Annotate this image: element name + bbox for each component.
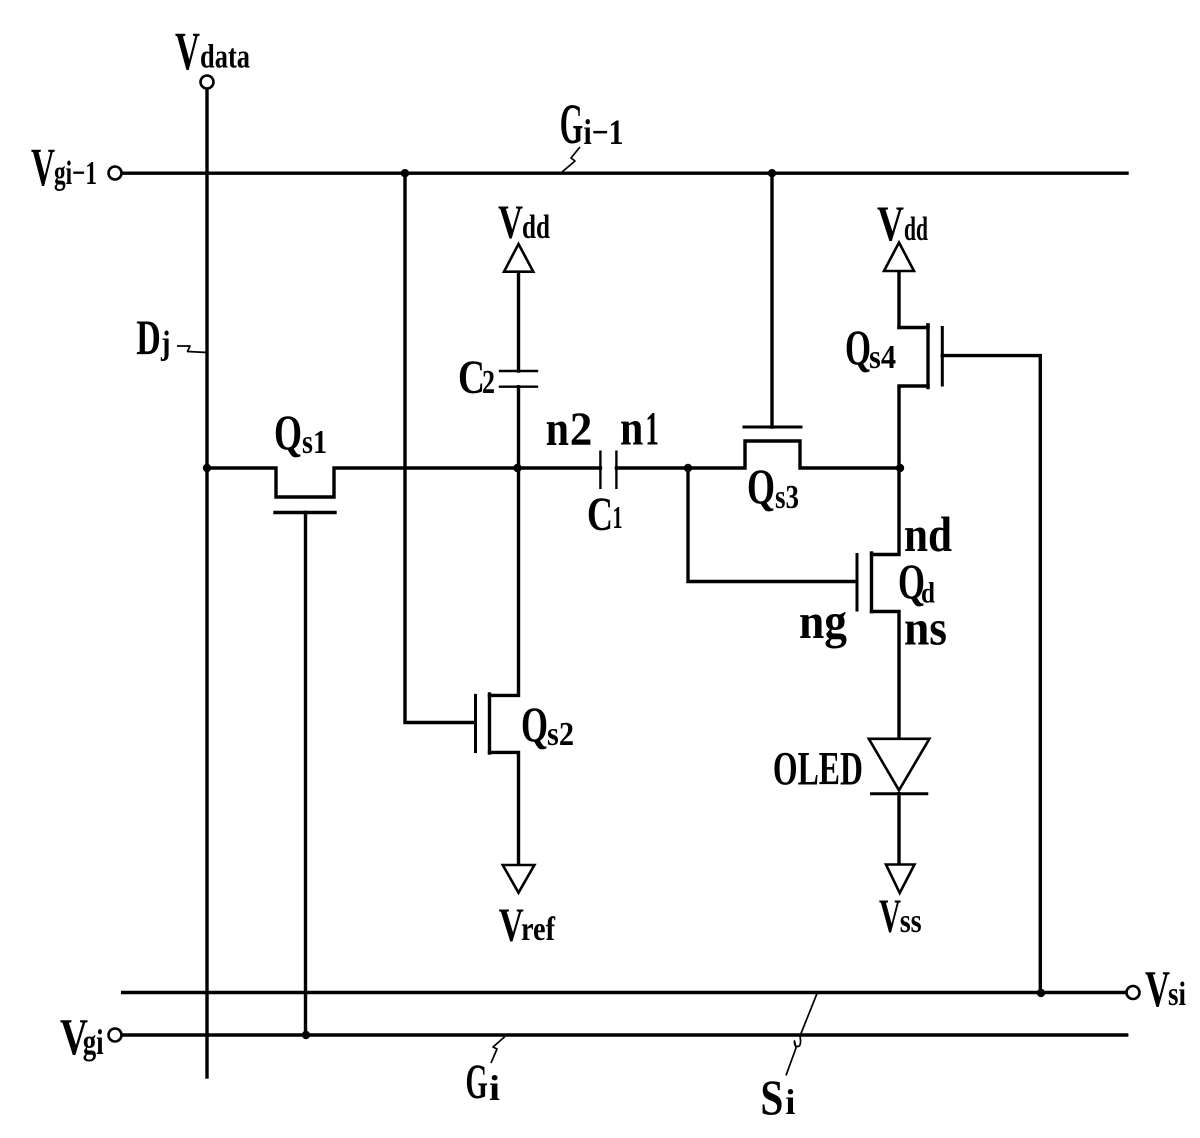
svg-text:V: V — [175, 21, 200, 81]
svg-text:D: D — [136, 309, 161, 365]
svg-text:Q: Q — [747, 458, 775, 514]
svg-text:C: C — [587, 488, 613, 541]
svg-text:s4: s4 — [869, 339, 896, 376]
svg-text:V: V — [879, 890, 901, 943]
svg-text:2: 2 — [482, 364, 495, 401]
svg-text:Q: Q — [521, 696, 548, 752]
svg-text:ss: ss — [900, 903, 922, 940]
svg-text:C: C — [458, 351, 485, 404]
svg-text:S: S — [760, 1069, 783, 1125]
svg-text:n: n — [620, 400, 643, 456]
svg-text:j: j — [160, 325, 170, 362]
svg-text:Q: Q — [274, 404, 302, 460]
svg-text:2: 2 — [570, 403, 593, 456]
svg-text:i−1: i−1 — [584, 112, 624, 152]
svg-text:ng: ng — [799, 593, 847, 649]
svg-text:gi: gi — [83, 1022, 104, 1062]
svg-text:G: G — [466, 1053, 488, 1109]
svg-text:V: V — [877, 195, 904, 251]
svg-text:i: i — [785, 1082, 795, 1122]
svg-text:data: data — [200, 39, 250, 76]
svg-text:s2: s2 — [547, 716, 574, 753]
svg-text:gi−1: gi−1 — [54, 155, 97, 192]
svg-text:1: 1 — [613, 499, 623, 535]
svg-text:ns: ns — [904, 600, 947, 656]
svg-text:dd: dd — [522, 209, 550, 246]
svg-text:Q: Q — [845, 319, 871, 375]
svg-text:s1: s1 — [302, 424, 327, 461]
svg-text:OLED: OLED — [773, 743, 863, 796]
svg-text:G: G — [560, 93, 583, 156]
svg-text:V: V — [1145, 961, 1170, 1018]
svg-text:1: 1 — [645, 403, 659, 456]
svg-text:dd: dd — [904, 211, 928, 248]
svg-text:V: V — [31, 137, 55, 197]
svg-text:V: V — [498, 196, 523, 249]
svg-text:i: i — [489, 1068, 500, 1108]
svg-text:n: n — [546, 400, 570, 456]
svg-text:s3: s3 — [775, 479, 799, 516]
svg-text:ref: ref — [521, 911, 556, 948]
svg-text:si: si — [1168, 976, 1186, 1013]
